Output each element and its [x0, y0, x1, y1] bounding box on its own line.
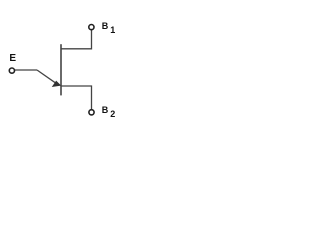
terminal B1 circle — [89, 25, 94, 30]
wire emitter horizontal segment — [15, 69, 37, 71]
svg-text:E: E — [9, 53, 16, 64]
emitter arrowhead — [53, 81, 61, 86]
svg-text:2: 2 — [110, 109, 115, 119]
transistor Q1 (UJT) base bar — [60, 44, 62, 95]
wire emitter diagonal segment — [37, 70, 58, 84]
terminal B2 circle — [89, 110, 94, 115]
wire B2 branch — [61, 86, 92, 109]
svg-text:B: B — [102, 21, 109, 31]
svg-text:B: B — [102, 105, 109, 115]
terminal E circle — [9, 68, 14, 73]
svg-text:1: 1 — [110, 25, 115, 35]
wire B1 branch — [61, 30, 92, 49]
